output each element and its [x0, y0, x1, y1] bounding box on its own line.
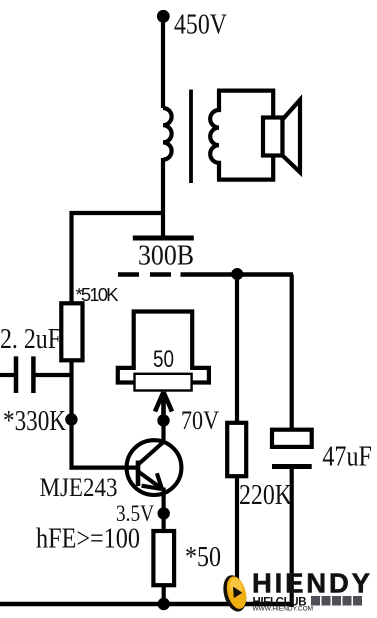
svg-text:220K: 220K — [239, 480, 292, 511]
svg-text:*330K: *330K — [3, 406, 66, 437]
svg-text:50: 50 — [153, 346, 174, 373]
tube V1 plate bar — [133, 236, 194, 241]
ground bus — [0, 602, 293, 607]
transformer core — [189, 90, 193, 184]
wire R2 to ground bus — [162, 585, 166, 606]
wire grid node down to 220K — [235, 275, 239, 424]
wire 70V node to transistor collector — [161, 421, 165, 445]
svg-text:450V: 450V — [174, 9, 227, 41]
transistor Q1 base bar — [136, 461, 141, 487]
svg-text:2. 2uF: 2. 2uF — [0, 324, 61, 355]
transistor Q1 emitter lead — [138, 471, 163, 489]
wire 220K to ground bus — [235, 476, 239, 606]
wire 47uF to ground bus — [290, 467, 294, 608]
svg-text:MJE243: MJE243 — [40, 472, 118, 502]
speaker LS1 horn cone — [283, 100, 301, 172]
node ground junction dot R2 — [158, 598, 170, 610]
wire 510K bottom to grid node — [69, 360, 73, 423]
resistor R3 220K — [227, 423, 246, 476]
node 450V supply dot — [157, 10, 170, 23]
filament hat outline — [118, 312, 209, 383]
svg-text:47uF: 47uF — [322, 442, 372, 473]
node emitter dot — [158, 507, 170, 519]
svg-text:WWW.HIENDY.COM: WWW.HIENDY.COM — [253, 606, 314, 613]
wire from 450V to transformer primary — [161, 15, 165, 108]
svg-text:*50: *50 — [185, 542, 221, 573]
wire grid line corner down to 47uF — [290, 275, 294, 432]
potentiometer 50 element box — [135, 374, 192, 391]
svg-text:300B: 300B — [138, 241, 194, 272]
speaker LS1 driver box — [263, 118, 283, 156]
wire primary bottom to tube plate — [161, 158, 165, 240]
wire emitter down — [162, 488, 166, 533]
wiper arrow to 70V — [155, 392, 172, 419]
transformer secondary winding — [210, 90, 219, 180]
node grid-right junction dot — [231, 268, 243, 280]
capacitor C1 plates — [16, 356, 33, 393]
capacitor C2 bottom plate — [272, 464, 312, 469]
svg-text:70V: 70V — [181, 406, 219, 435]
tube grid dashed line — [118, 272, 171, 276]
svg-text:HIENDY: HIENDY — [252, 568, 370, 599]
capacitor C2 47uF top plate box — [272, 430, 312, 447]
resistor R2 *50 — [153, 531, 174, 585]
logo chinese characters blocks — [311, 596, 362, 606]
svg-text:hFE>=100: hFE>=100 — [36, 524, 140, 555]
resistor R1 510K — [61, 303, 82, 360]
logo play triangle — [234, 588, 242, 598]
transformer primary winding T1 — [163, 108, 172, 160]
transistor Q1 emitter arrowhead — [142, 473, 162, 489]
capacitor C1 right lead — [33, 373, 71, 377]
node grid junction dot — [65, 413, 77, 425]
wire secondary bottom to speaker — [217, 154, 273, 180]
capacitor C1 2.2uF left lead — [0, 373, 16, 377]
transistor Q1 collector lead — [137, 442, 163, 466]
wire plate branch to 510K — [72, 213, 164, 305]
wire secondary top to speaker — [217, 91, 273, 119]
logo Hiendy disc — [220, 573, 251, 615]
node 70V dot — [157, 414, 169, 426]
wire grid line solid to right — [181, 272, 294, 276]
wire grid node down to transistor base — [72, 420, 139, 468]
node ground junction dot 220K — [231, 598, 243, 610]
transistor Q1 circle — [127, 440, 182, 495]
